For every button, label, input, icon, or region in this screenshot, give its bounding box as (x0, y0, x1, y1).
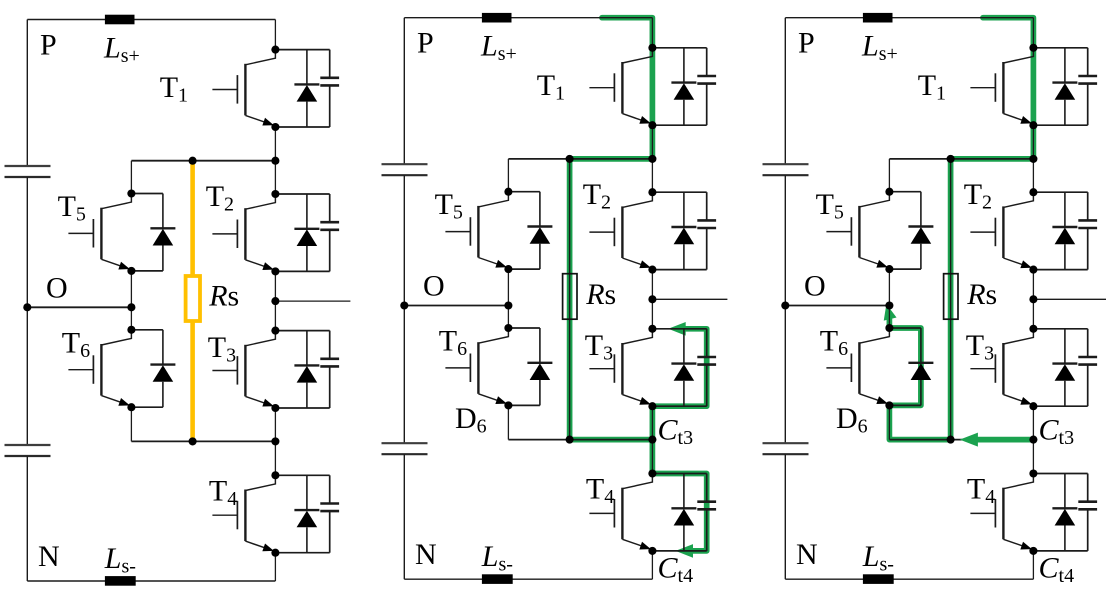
inductor Ls- (482, 574, 513, 584)
node lower row / main column junction (1029, 436, 1037, 444)
wire T1 parallel-branch top (1033, 47, 1087, 49)
diode D5 antiparallel of T5 (527, 192, 552, 269)
wire T2 parallel-branch top (275, 193, 329, 195)
node T4 emitter (1029, 547, 1037, 555)
wire T4 parallel-branch bottom (275, 552, 329, 554)
wire left DC rail lower (26, 456, 28, 581)
wire T5 parallel-branch bottom (508, 268, 540, 270)
node T1 collector (648, 44, 656, 52)
capacitor DC-link upper (763, 164, 809, 175)
wire phase output stub (1033, 298, 1106, 300)
wire current path: top rail into T1 and down through T1 channel (green) (602, 18, 652, 159)
wire top rail to T1 collector (651, 18, 653, 48)
wire lower commutation row (889, 439, 1033, 441)
wire top rail to T1 collector (1032, 18, 1034, 48)
node T1 emitter (648, 121, 656, 129)
wire T2 emitter to T3 collector (1032, 270, 1034, 329)
wire T6 emitter to lower row (888, 405, 890, 439)
wire T1 parallel-branch top (652, 47, 706, 49)
wire current path: top rail into T1 and down through T1 channel (green) (983, 18, 1033, 159)
svg-text:P: P (798, 27, 815, 60)
wire upper commutation row (889, 158, 1033, 160)
transistor T6 (IGBT) (826, 328, 889, 405)
node T3 emitter (648, 402, 656, 410)
capacitor snubber Ct1 (snubber) (697, 48, 716, 125)
diode D3 antiparallel of T3 (1052, 329, 1077, 406)
wire T2 parallel-branch bottom (652, 269, 706, 271)
wire T2 parallel-branch top (652, 191, 706, 193)
node T1 emitter (1029, 121, 1037, 129)
transistor T2 (IGBT) (589, 192, 652, 269)
capacitor DC-link lower (763, 443, 809, 454)
transistor T2 (IGBT) (212, 194, 275, 271)
wire left DC rail upper (784, 18, 786, 165)
wire T5 parallel-branch bottom (889, 268, 921, 270)
diode D5 antiparallel of T5 (150, 194, 175, 271)
svg-text:Rs: Rs (585, 278, 616, 311)
wire T2 emitter to T3 collector (274, 271, 276, 330)
wire T5 emitter to T6 collector (through node O) (507, 269, 509, 328)
node T3 collector (648, 325, 656, 333)
wire T6 parallel-branch top (131, 329, 163, 331)
node T5 collector (504, 188, 512, 196)
transistor T6 (IGBT) (68, 330, 131, 407)
diode D5 antiparallel of T5 (908, 192, 933, 269)
diode D4 antiparallel of T4 (1052, 474, 1077, 551)
arrow current into T3 collector node (green) (668, 322, 686, 336)
wire upper commutation row (508, 158, 652, 160)
wire T3 emitter to T4 collector (274, 408, 276, 475)
wire top rail to T1 collector (274, 20, 276, 50)
capacitor DC-link upper (382, 164, 428, 175)
node Rs top junction (566, 155, 574, 163)
capacitor snubber Ct2 (snubber) (1078, 192, 1097, 269)
wire T3 parallel-branch top (652, 328, 706, 330)
transistor T3 (IGBT) (589, 329, 652, 406)
wire T5 emitter to T6 collector (through node O) (888, 269, 890, 328)
node T2 collector (271, 190, 279, 198)
wire T3 parallel-branch bottom (1033, 405, 1087, 407)
node upper row / main column junction (648, 155, 656, 163)
wire T3 parallel-branch bottom (652, 405, 706, 407)
wire upper commutation row (131, 160, 275, 162)
wire T5 parallel-branch top (889, 191, 921, 193)
wire T2 parallel-branch bottom (1033, 269, 1087, 271)
wire bottom rail N (785, 578, 1033, 580)
transistor T3 (IGBT) (970, 329, 1033, 406)
wire left DC rail upper (403, 18, 405, 165)
wire T1 emitter to T2 collector (651, 125, 653, 192)
capacitor snubber Ct2 (snubber) (697, 192, 716, 269)
node T2 emitter (271, 267, 279, 275)
wire T6 parallel-branch top (889, 327, 921, 329)
node T4 collector (1029, 469, 1037, 477)
wire O row from DC midpoint (785, 305, 889, 307)
diode D2 antiparallel of T2 (1052, 192, 1077, 269)
node phase output (648, 295, 656, 303)
node Rs bottom junction (566, 436, 574, 444)
wire T2 parallel-branch bottom (275, 270, 329, 272)
panel 3: commutation current through clamp diode D6 (763, 13, 1106, 587)
wire T4 emitter to bottom rail (274, 553, 276, 581)
wire T6 emitter to lower row (507, 405, 509, 439)
wire T5 parallel-branch bottom (131, 270, 163, 272)
capacitor Ct4 (snubber) (320, 475, 339, 552)
inductor Ls- (105, 576, 136, 586)
wire T1 emitter to T2 collector (1032, 125, 1034, 192)
wire left DC rail lower (784, 454, 786, 579)
diode D2 antiparallel of T2 (671, 192, 696, 269)
wire T5 emitter to T6 collector (through node O) (130, 271, 132, 330)
node T4 emitter (271, 549, 279, 557)
node lower row / main column junction (271, 437, 279, 445)
node Rs top junction (189, 157, 197, 165)
wire T3 parallel-branch top (1033, 328, 1087, 330)
svg-text:O: O (804, 270, 826, 303)
capacitor DC-link lower (5, 445, 51, 456)
wire T5 parallel-branch top (131, 193, 163, 195)
node T5 collector (885, 188, 893, 196)
wire phase output stub (652, 298, 727, 300)
node T6 collector (504, 324, 512, 332)
svg-text:P: P (40, 29, 57, 62)
inductor Ls+ (105, 15, 135, 25)
diode D1 antiparallel of T1 (671, 48, 696, 125)
transistor T1 (IGBT) (970, 48, 1033, 125)
wire T4 parallel-branch top (275, 474, 329, 476)
wire phase output stub (275, 300, 350, 302)
wire top rail P (404, 17, 652, 19)
node T1 collector (1029, 44, 1037, 52)
wire current path: main column T3 emitter to T4 collector (green) (650, 406, 656, 473)
wire T6 parallel-branch bottom (131, 406, 163, 408)
wire left DC rail middle (784, 175, 786, 443)
node O on DC rail (400, 301, 408, 309)
wire T1 parallel-branch bottom (1033, 124, 1087, 126)
capacitor snubber Ct1 (snubber) (1078, 48, 1097, 125)
node T6 emitter (504, 401, 512, 409)
node T3 collector (271, 327, 279, 335)
wire T5 parallel-branch top (508, 191, 540, 193)
wire left DC rail middle (26, 177, 28, 445)
wire T3 parallel-branch top (275, 330, 329, 332)
capacitor Ct3 (snubber) (1078, 329, 1097, 406)
wire T4 parallel-branch top (652, 473, 706, 475)
transistor T2 (IGBT) (970, 192, 1033, 269)
wire Rs branch highlight (orange) (190, 161, 195, 442)
node T3 emitter (271, 404, 279, 412)
wire Rs branch (950, 159, 952, 440)
inductor Ls+ (482, 13, 512, 23)
diode D1 antiparallel of T1 (1052, 48, 1077, 125)
svg-text:N: N (38, 540, 60, 573)
wire upper row to T5 collector (888, 159, 890, 192)
capacitor snubber Ct1 (snubber) (320, 50, 339, 127)
wire T4 parallel-branch bottom (1033, 550, 1087, 552)
wire T4 emitter to bottom rail (1032, 551, 1034, 579)
wire T6 parallel-branch bottom (889, 404, 921, 406)
capacitor DC-link upper (5, 166, 51, 177)
wire T2 parallel-branch top (1033, 191, 1087, 193)
diode D3 antiparallel of T3 (294, 331, 319, 408)
wire upper row to T5 collector (130, 161, 132, 194)
node T4 collector (648, 469, 656, 477)
svg-text:P: P (417, 27, 434, 60)
wire T4 parallel-branch bottom (652, 550, 706, 552)
capacitor Ct3 (snubber) (697, 329, 716, 406)
node upper row / main column junction (271, 157, 279, 165)
wire T3 parallel-branch bottom (275, 407, 329, 409)
inductor Ls+ (863, 13, 893, 23)
wire T6 emitter to lower row (130, 407, 132, 441)
wire T1 emitter to T2 collector (274, 127, 276, 194)
node phase output (1029, 295, 1037, 303)
node T2 collector (648, 188, 656, 196)
wire lower commutation row (131, 440, 275, 442)
wire lower commutation row (508, 439, 652, 441)
resistor Rs (orange) (186, 276, 200, 321)
wire T1 parallel-branch bottom (275, 126, 329, 128)
node Rs bottom junction (189, 437, 197, 445)
capacitor Ct4 (snubber) (697, 474, 716, 551)
node O on DC rail (23, 303, 31, 311)
diode D6 (908, 328, 933, 405)
wire T4 emitter to bottom rail (651, 551, 653, 579)
transistor T4 (IGBT) (970, 474, 1033, 551)
transistor T4 (IGBT) (589, 474, 652, 551)
transistor T1 (IGBT) (589, 48, 652, 125)
wire bottom rail N (27, 580, 275, 582)
svg-text:N: N (415, 538, 437, 571)
node T4 emitter (648, 547, 656, 555)
node Rs bottom junction (947, 436, 955, 444)
wire T3 emitter to T4 collector (651, 406, 653, 473)
wire O row from DC midpoint (27, 306, 131, 308)
wire T1 parallel-branch top (275, 49, 329, 51)
inductor Ls- (863, 574, 894, 584)
diode D1 antiparallel of T1 (294, 50, 319, 127)
capacitor snubber Ct2 (snubber) (320, 194, 339, 271)
capacitor Ct4 (snubber) (1078, 474, 1097, 551)
node T6 emitter (127, 403, 135, 411)
diode D6 (150, 330, 175, 407)
wire current from T3/T4 midpoint toward Rs node (green, over wire) (978, 437, 1034, 443)
transistor T6 (IGBT) (445, 328, 508, 405)
node T4 collector (271, 471, 279, 479)
node T1 collector (271, 46, 279, 54)
node T5 emitter (504, 265, 512, 273)
wire left DC rail upper (26, 20, 28, 167)
resistor Rs (944, 274, 958, 320)
transistor T1 (IGBT) (212, 50, 275, 127)
node lower row / main column junction (648, 436, 656, 444)
wire left DC rail middle (403, 175, 405, 443)
diode D6 (527, 328, 552, 405)
node O on DC rail (781, 301, 789, 309)
wire O row from DC midpoint (404, 305, 508, 307)
wire left DC rail lower (403, 454, 405, 579)
wire current path: loop through snubber Ct3 (green) (652, 329, 706, 406)
node T3 collector (1029, 325, 1037, 333)
node T6 collector (885, 324, 893, 332)
resistor Rs (563, 274, 577, 320)
node phase output (271, 297, 279, 305)
node T1 emitter (271, 123, 279, 131)
diode D2 antiparallel of T2 (294, 194, 319, 271)
node T5 collector (127, 189, 135, 197)
node T2 emitter (1029, 266, 1037, 274)
capacitor Ct3 (snubber) (320, 331, 339, 408)
node upper row / main column junction (1029, 155, 1037, 163)
wire T2 emitter to T3 collector (651, 270, 653, 329)
svg-text:O: O (423, 270, 445, 303)
node T5 emitter (127, 267, 135, 275)
node T6 collector (127, 326, 135, 334)
wire Rs branch (569, 159, 571, 440)
svg-text:N: N (796, 538, 818, 571)
diode D4 antiparallel of T4 (294, 475, 319, 552)
transistor T5 (IGBT) (68, 194, 131, 271)
node T3 emitter (1029, 402, 1037, 410)
node O on clamp column (504, 301, 512, 309)
node T6 emitter (885, 401, 893, 409)
node T2 emitter (648, 266, 656, 274)
node O on clamp column (885, 301, 893, 309)
node Rs top junction (947, 155, 955, 163)
transistor T4 (IGBT) (212, 475, 275, 552)
wire T3 emitter to T4 collector (1032, 406, 1034, 473)
svg-text:O: O (46, 272, 68, 305)
wire current path: across commutation row and down through Rs (green) (889, 159, 1033, 440)
wire current path: loop through D6 free-wheel diode (green) (889, 314, 921, 405)
arrow current toward Rs bottom node (green) (960, 433, 978, 447)
panel 1: sense resistor Rs highlighted (5, 15, 351, 586)
wire current path: loop through snubber Ct4 (green) (652, 474, 706, 551)
wire current path: across commutation row and down through Rs (green) (570, 159, 653, 440)
transistor T5 (IGBT) (445, 192, 508, 269)
wire top rail P (785, 17, 1033, 19)
wire T4 parallel-branch top (1033, 473, 1087, 475)
wire T6 parallel-branch top (508, 327, 540, 329)
transistor T3 (IGBT) (212, 331, 275, 408)
capacitor DC-link lower (382, 443, 428, 454)
wire bottom rail N (404, 578, 652, 580)
diode D3 antiparallel of T3 (671, 329, 696, 406)
arrow current into T4 emitter node (green) (676, 544, 694, 558)
transistor T5 (IGBT) (826, 192, 889, 269)
panel 2: commutation current charging Ct3 and Ct4 (382, 13, 728, 587)
node T5 emitter (885, 265, 893, 273)
node T2 collector (1029, 188, 1037, 196)
arrow current up into node O (green) (884, 304, 897, 321)
node O on clamp column (127, 303, 135, 311)
svg-text:Rs: Rs (966, 278, 997, 311)
wire T6 parallel-branch bottom (508, 404, 540, 406)
wire upper row to T5 collector (507, 159, 509, 192)
wire top rail P (27, 19, 275, 21)
diode D4 antiparallel of T4 (671, 474, 696, 551)
svg-text:Rs: Rs (208, 280, 239, 313)
wire T1 parallel-branch bottom (652, 124, 706, 126)
